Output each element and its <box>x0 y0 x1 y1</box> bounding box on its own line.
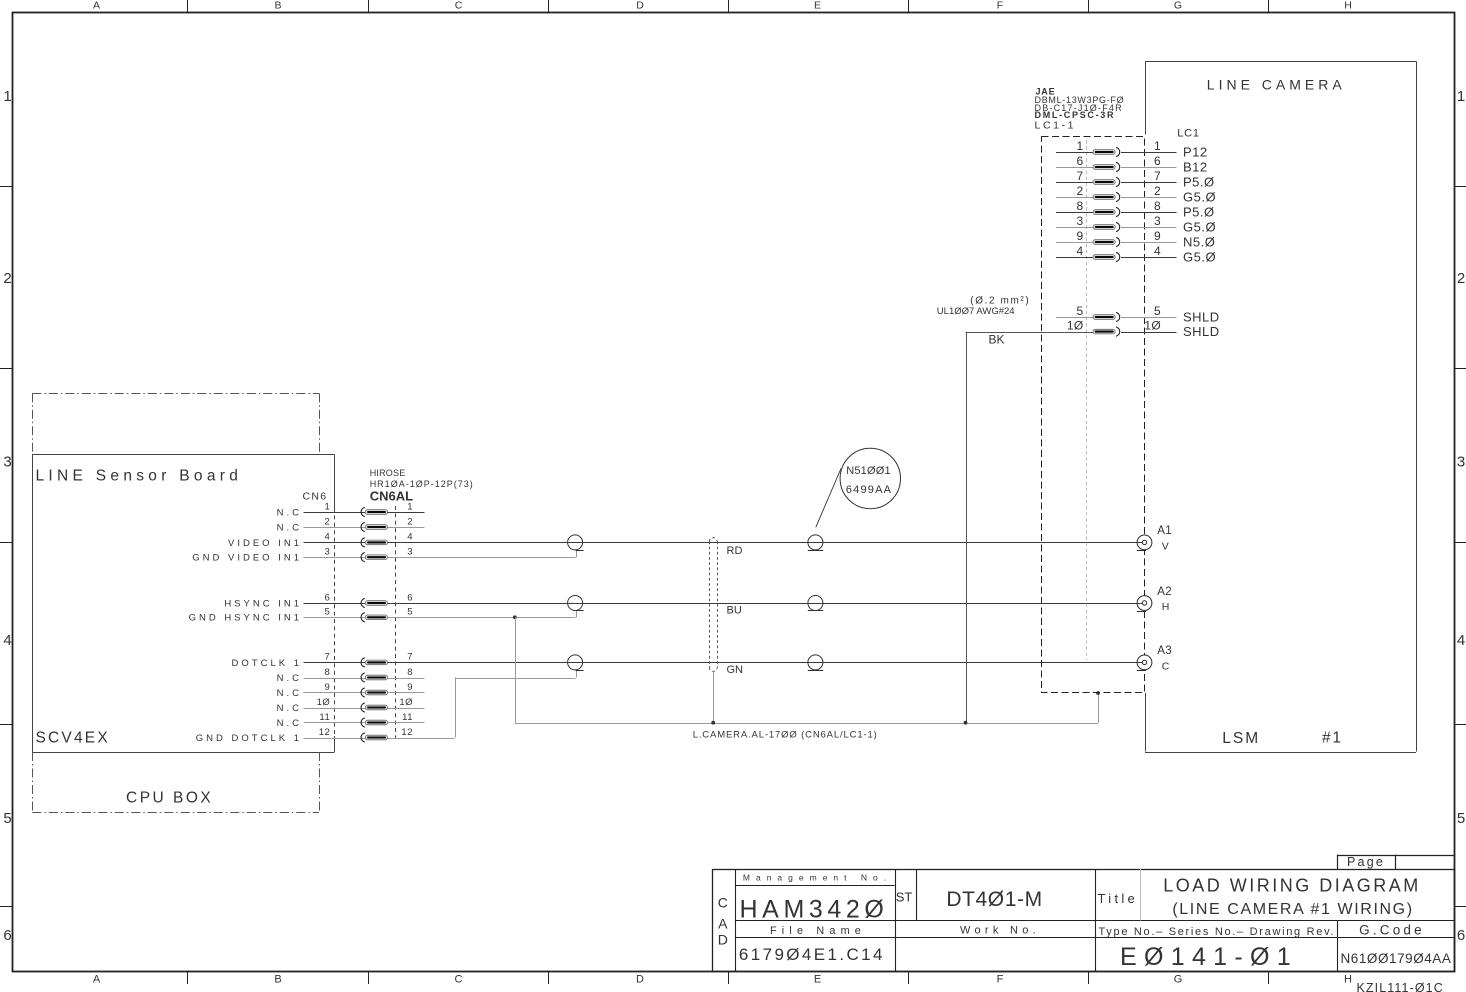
svg-text:SCV4EX: SCV4EX <box>36 730 110 747</box>
svg-text:2: 2 <box>1457 270 1465 287</box>
svg-text:C: C <box>455 974 463 986</box>
svg-text:BU: BU <box>727 604 742 616</box>
svg-text:N.C: N.C <box>277 673 302 684</box>
svg-text:CPU BOX: CPU BOX <box>126 790 213 807</box>
svg-text:4: 4 <box>1457 632 1465 649</box>
shield circle at x815 y542.4 <box>808 535 823 550</box>
svg-text:DT4Ø1-M: DT4Ø1-M <box>946 888 1042 911</box>
svg-text:LC1-1: LC1-1 <box>1035 120 1077 132</box>
svg-text:N51ØØ1: N51ØØ1 <box>846 465 891 477</box>
svg-text:H: H <box>1162 601 1170 613</box>
svg-text:7: 7 <box>407 652 413 663</box>
svg-text:LC1: LC1 <box>1177 128 1200 140</box>
svg-text:(Ø.2 mm²): (Ø.2 mm²) <box>970 295 1030 306</box>
svg-text:HR1ØA-1ØP-12P(73): HR1ØA-1ØP-12P(73) <box>370 479 474 489</box>
svg-text:6499AA: 6499AA <box>846 484 892 496</box>
svg-text:5: 5 <box>1457 810 1465 827</box>
wire ground bus down/right to cable shell <box>515 617 517 722</box>
svg-text:UL1ØØ7 AWG#24: UL1ØØ7 AWG#24 <box>937 306 1015 317</box>
svg-text:A2: A2 <box>1157 586 1172 598</box>
svg-text:6179Ø4E1.C14: 6179Ø4E1.C14 <box>739 945 885 964</box>
svg-text:LINE Sensor Board: LINE Sensor Board <box>36 468 243 485</box>
svg-text:GND DOTCLK 1: GND DOTCLK 1 <box>196 733 302 744</box>
svg-text:SHLD: SHLD <box>1183 324 1220 339</box>
wire capsule drain to ground bus <box>713 671 715 722</box>
svg-text:BK: BK <box>989 332 1005 346</box>
svg-text:1: 1 <box>1154 139 1161 153</box>
svg-text:11: 11 <box>402 712 413 723</box>
wire BK shield drain <box>966 332 968 723</box>
svg-text:8: 8 <box>1154 199 1161 213</box>
svg-text:5: 5 <box>407 607 413 618</box>
svg-text:GND HSYNC IN1: GND HSYNC IN1 <box>189 613 302 624</box>
svg-text:11: 11 <box>319 712 330 723</box>
svg-text:P5.Ø: P5.Ø <box>1183 205 1215 220</box>
svg-text:8: 8 <box>1077 199 1084 213</box>
LC1 pin 2 (G5.0) <box>1056 197 1093 199</box>
svg-text:D: D <box>636 0 644 12</box>
svg-text:G.Code: G.Code <box>1359 923 1425 938</box>
node BK junction on ground bus <box>964 721 968 725</box>
svg-text:G: G <box>1174 0 1182 12</box>
svg-text:7: 7 <box>325 652 331 663</box>
svg-text:ST: ST <box>896 890 913 905</box>
svg-text:Page: Page <box>1347 855 1385 869</box>
svg-text:DOTCLK 1: DOTCLK 1 <box>232 658 302 669</box>
svg-text:GN: GN <box>727 664 744 676</box>
shield circle at x815 y603 <box>808 596 823 611</box>
svg-text:N61ØØ179Ø4AA: N61ØØ179Ø4AA <box>1341 951 1452 966</box>
svg-text:N.C: N.C <box>277 703 302 714</box>
svg-text:1: 1 <box>407 501 413 512</box>
svg-text:9: 9 <box>325 682 331 693</box>
wire HSYNC (CN6AL-6 to LSM A2) <box>388 603 1138 605</box>
svg-text:KZIL111-Ø1C: KZIL111-Ø1C <box>1357 981 1444 992</box>
svg-text:2: 2 <box>407 516 413 527</box>
terminal A3 (C) <box>1137 655 1152 670</box>
svg-text:2: 2 <box>3 270 11 287</box>
svg-text:E: E <box>814 974 821 986</box>
svg-text:D: D <box>718 932 728 948</box>
svg-text:SHLD: SHLD <box>1183 310 1220 325</box>
svg-text:LINE CAMERA: LINE CAMERA <box>1207 76 1346 92</box>
svg-text:1Ø: 1Ø <box>1144 318 1161 332</box>
svg-text:GND VIDEO IN1: GND VIDEO IN1 <box>192 553 302 564</box>
svg-text:7: 7 <box>1077 169 1084 183</box>
svg-text:A: A <box>718 916 728 932</box>
wire DOTCLK (CN6AL-7 to LSM A3) <box>388 662 1138 664</box>
terminal A2 (H) <box>1137 596 1152 611</box>
svg-text:V: V <box>1162 540 1169 552</box>
wire VIDEO (CN6AL-4 to LSM A1) <box>388 542 1138 544</box>
svg-text:3: 3 <box>407 547 413 558</box>
svg-text:N.C: N.C <box>277 688 302 699</box>
wire GND HSYNC to shield circle and ground bus <box>388 617 576 619</box>
svg-text:6: 6 <box>3 927 11 944</box>
svg-text:6: 6 <box>407 592 413 603</box>
svg-text:N.C: N.C <box>277 507 302 518</box>
svg-text:3: 3 <box>1457 454 1465 471</box>
svg-text:H: H <box>1344 974 1352 986</box>
LC1 pin 6 (B12) <box>1056 167 1093 169</box>
svg-text:C: C <box>455 0 463 12</box>
svg-text:File Name: File Name <box>770 925 866 937</box>
svg-text:8: 8 <box>325 667 331 678</box>
svg-text:(LINE CAMERA #1 WIRING): (LINE CAMERA #1 WIRING) <box>1172 901 1413 918</box>
svg-text:12: 12 <box>319 727 331 738</box>
LC1 pin 5 (SHLD) <box>1056 317 1093 319</box>
svg-text:B12: B12 <box>1183 160 1208 175</box>
svg-text:4: 4 <box>325 532 331 543</box>
title block <box>1337 855 1454 857</box>
node drain junction <box>711 721 715 725</box>
svg-text:1Ø: 1Ø <box>1067 318 1084 332</box>
svg-text:Type No.– Series No.– Drawing: Type No.– Series No.– Drawing Rev. <box>1099 926 1336 938</box>
svg-text:5: 5 <box>325 607 331 618</box>
svg-text:5: 5 <box>1154 304 1161 318</box>
svg-text:6: 6 <box>1457 927 1465 944</box>
LC1 pin 8 (P5.0) <box>1056 212 1093 214</box>
LINE CAMERA / LSM box <box>1145 61 1416 63</box>
svg-text:P5.Ø: P5.Ø <box>1183 175 1215 190</box>
LC1 pin 3 (G5.0) <box>1056 227 1093 229</box>
svg-text:8: 8 <box>407 667 413 678</box>
LC1 pin 10 (SHLD) <box>966 332 1094 334</box>
cable core dashed gray line <box>1086 140 1088 660</box>
svg-text:2: 2 <box>1077 184 1084 198</box>
svg-text:P12: P12 <box>1183 145 1208 160</box>
shield circle at x575 y542.4 <box>568 535 583 550</box>
CPU BOX dash-dot enclosure <box>32 393 319 395</box>
svg-text:B: B <box>274 0 281 12</box>
svg-text:D: D <box>636 974 644 986</box>
twisted pair shield capsule (dashed) <box>709 542 711 668</box>
svg-text:F: F <box>997 974 1004 986</box>
svg-text:1Ø: 1Ø <box>317 697 331 708</box>
svg-text:9: 9 <box>1154 229 1161 243</box>
svg-text:EØ141-Ø1: EØ141-Ø1 <box>1120 943 1298 971</box>
svg-text:N5.Ø: N5.Ø <box>1183 235 1215 250</box>
svg-text:L.CAMERA.AL-17ØØ (CN6AL/LC1-1): L.CAMERA.AL-17ØØ (CN6AL/LC1-1) <box>693 729 878 740</box>
svg-text:G5.Ø: G5.Ø <box>1183 220 1216 235</box>
svg-text:A: A <box>93 0 100 12</box>
LC1 pin 1 (P12) <box>1056 152 1093 154</box>
svg-text:G5.Ø: G5.Ø <box>1183 190 1216 205</box>
svg-text:4: 4 <box>1154 244 1161 258</box>
balloon N51001/6499AA <box>840 448 900 508</box>
svg-text:9: 9 <box>1077 229 1084 243</box>
svg-text:C: C <box>1162 660 1170 672</box>
svg-text:VIDEO IN1: VIDEO IN1 <box>228 538 302 549</box>
svg-text:F: F <box>997 0 1003 12</box>
svg-text:2: 2 <box>1154 184 1161 198</box>
wire GND VIDEO to shield circle <box>388 557 576 559</box>
LINE Sensor Board box <box>32 454 334 456</box>
svg-text:5: 5 <box>1077 304 1084 318</box>
svg-text:Work No.: Work No. <box>960 924 1040 936</box>
board edge dashed (connector passthrough) <box>334 508 336 736</box>
svg-text:HIROSE: HIROSE <box>370 468 406 478</box>
svg-text:2: 2 <box>325 516 331 527</box>
svg-text:#1: #1 <box>1322 730 1343 747</box>
svg-text:A3: A3 <box>1157 645 1172 657</box>
svg-text:1: 1 <box>3 88 11 105</box>
wire stubs (N.C pins CN6AL right side) <box>388 512 425 514</box>
svg-text:1Ø: 1Ø <box>399 697 413 708</box>
svg-text:4: 4 <box>407 532 413 543</box>
shield circle at x575 y603 <box>568 596 583 611</box>
svg-text:7: 7 <box>1154 169 1161 183</box>
svg-text:N.C: N.C <box>277 718 302 729</box>
cable assembly dashed box LC1-1 <box>1042 137 1145 693</box>
svg-text:B: B <box>274 974 281 986</box>
svg-text:A1: A1 <box>1157 525 1172 537</box>
svg-text:Title: Title <box>1098 891 1139 906</box>
svg-text:G: G <box>1174 974 1183 986</box>
svg-text:H: H <box>1344 0 1352 12</box>
terminal A1 (V) <box>1137 535 1152 550</box>
svg-text:Management No.: Management No. <box>743 873 892 883</box>
svg-text:12: 12 <box>401 727 413 738</box>
svg-text:3: 3 <box>325 547 331 558</box>
svg-text:1: 1 <box>325 501 331 512</box>
wire GND DOTCLK route to shield circle <box>388 738 455 740</box>
svg-text:E: E <box>814 0 821 12</box>
node shell junction on dashed box <box>1096 691 1100 695</box>
svg-text:1: 1 <box>1457 88 1465 105</box>
svg-text:3: 3 <box>3 454 11 471</box>
svg-text:N.C: N.C <box>277 522 302 533</box>
svg-text:LOAD WIRING DIAGRAM: LOAD WIRING DIAGRAM <box>1163 875 1421 895</box>
shield circle at x815 y662.4 <box>808 655 823 670</box>
shield circle at x575 y662.4 <box>568 655 583 670</box>
LC1 pin 7 (P5.0) <box>1056 182 1093 184</box>
svg-text:G5.Ø: G5.Ø <box>1183 250 1216 265</box>
svg-text:4: 4 <box>3 632 11 649</box>
svg-text:3: 3 <box>1077 214 1084 228</box>
svg-text:3: 3 <box>1154 214 1161 228</box>
LC1 pin 4 (G5.0) <box>1056 257 1093 259</box>
svg-text:9: 9 <box>407 682 413 693</box>
svg-text:C: C <box>718 895 728 911</box>
LC1 pin 9 (N5.0) <box>1056 242 1093 244</box>
svg-text:A: A <box>93 974 101 986</box>
svg-text:6: 6 <box>1154 154 1161 168</box>
svg-text:LSM: LSM <box>1222 730 1260 747</box>
svg-text:4: 4 <box>1077 244 1084 258</box>
svg-text:6: 6 <box>1077 154 1084 168</box>
svg-text:HAM342Ø: HAM342Ø <box>740 896 889 924</box>
svg-text:6: 6 <box>325 592 331 603</box>
node GND HSYNC junction <box>513 615 517 619</box>
svg-text:RD: RD <box>727 545 743 557</box>
svg-text:1: 1 <box>1077 139 1084 153</box>
svg-text:HSYNC IN1: HSYNC IN1 <box>224 598 302 609</box>
svg-text:5: 5 <box>3 810 11 827</box>
